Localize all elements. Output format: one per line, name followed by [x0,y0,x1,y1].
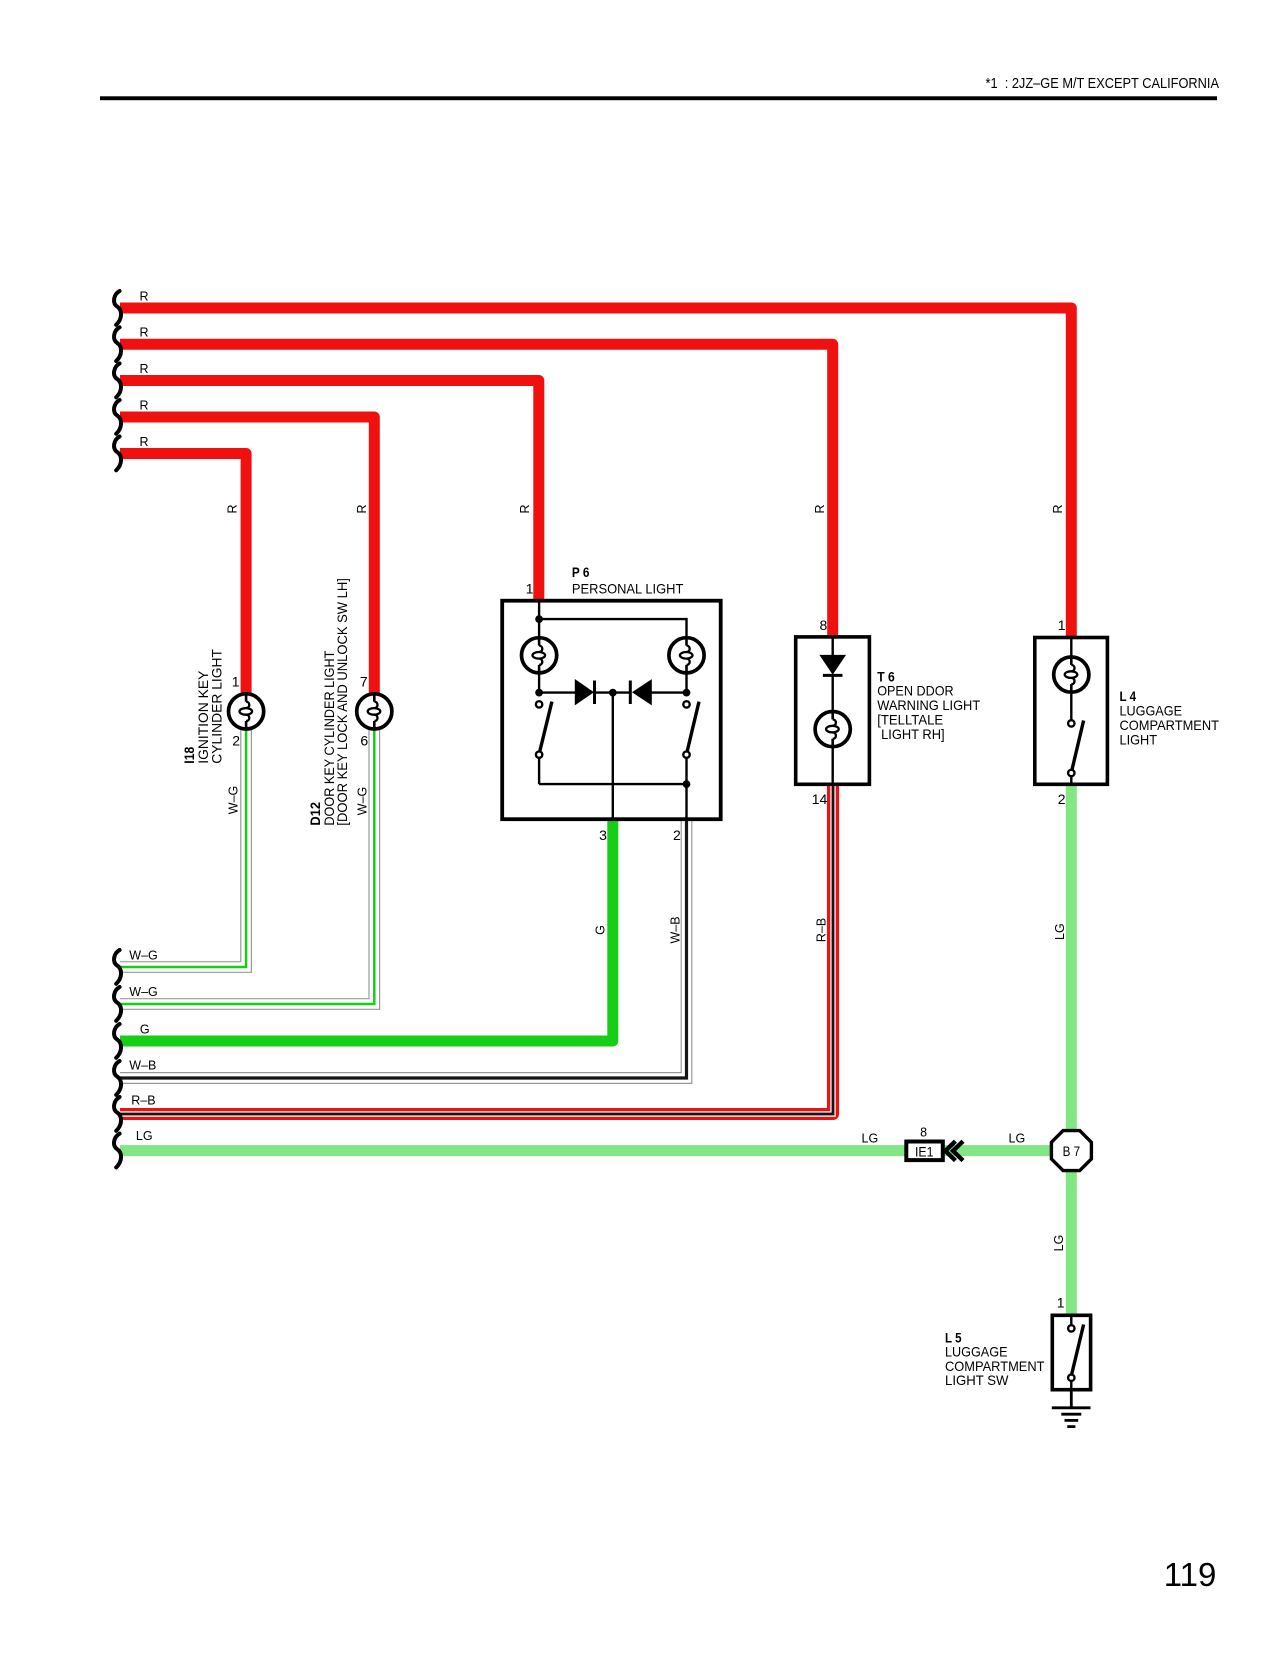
svg-text:[DOOR KEY LOCK AND UNLOCK SW L: [DOOR KEY LOCK AND UNLOCK SW LH] [334,578,350,826]
connector L4 box [1035,638,1108,785]
svg-text:8: 8 [820,617,828,633]
svg-text:R: R [140,435,149,449]
wire LG from B7 down to L5 [1066,1168,1077,1316]
svg-text:W–G: W–G [227,786,241,814]
wire LG horizontal run [120,1145,1071,1156]
lamp L4 [1054,657,1089,692]
svg-text:R–B: R–B [131,1094,155,1108]
svg-text:LIGHT: LIGHT [1120,732,1158,748]
wire W-G from I18 [120,729,251,972]
diode T6 [820,655,845,674]
svg-text:6: 6 [360,733,368,749]
break symbol R-B [114,1097,121,1131]
switch P6 left [536,701,542,707]
svg-text:R: R [140,326,149,340]
ground [1052,1390,1091,1427]
svg-text:R–B: R–B [815,918,829,942]
node P6 center [609,689,617,697]
lamp P6 left [522,638,557,673]
break symbol W-B [114,1061,121,1095]
svg-text:LG: LG [1052,1235,1066,1252]
svg-text:R: R [225,504,239,513]
svg-text:W–B: W–B [668,916,682,943]
wire W-B from P6 pin2 [120,818,692,1083]
break symbol G [114,1024,121,1058]
svg-text:LG: LG [1053,923,1067,940]
wire R bus3 to P6 [120,381,539,602]
break symbol bus2 [114,327,121,361]
lamp D12 [357,694,392,729]
connector IE1 [906,1142,943,1161]
svg-text:8: 8 [920,1126,927,1140]
break symbol bus4 [114,400,121,434]
svg-text:PERSONAL LIGHT: PERSONAL LIGHT [572,580,684,596]
svg-text:2: 2 [673,827,681,843]
break symbol bus5 [114,437,121,471]
lamp I18 [229,694,264,729]
diode D1 in P6 [575,680,593,704]
svg-text:R: R [140,289,149,303]
svg-text:LG: LG [136,1129,153,1143]
svg-text:W–G: W–G [129,985,157,999]
wire R bus1 to L4 [120,308,1071,638]
svg-text:P 6: P 6 [572,564,590,580]
switch L5 [1068,1325,1074,1331]
svg-text:W–B: W–B [129,1059,156,1073]
node P6 right lower [683,780,691,788]
node B7 octagon [1051,1131,1091,1171]
svg-text:119: 119 [1164,1556,1217,1593]
node P6 right below lamp [683,689,691,697]
svg-text:IE1: IE1 [915,1144,934,1159]
svg-text:3: 3 [599,827,607,843]
break symbol LG [114,1134,121,1168]
svg-text:R: R [355,504,369,513]
switch P6 right [683,701,689,707]
wire R bus4 to D12 [120,417,374,694]
svg-text:14: 14 [812,791,828,807]
svg-text:LG: LG [1009,1131,1026,1145]
switch L5 box [1052,1315,1090,1389]
svg-text:2: 2 [1058,791,1066,807]
node P6 top [535,615,543,623]
svg-text:LIGHT RH]: LIGHT RH] [881,726,945,742]
svg-text:R: R [1051,504,1065,513]
svg-text:R: R [140,398,149,412]
diode D2 in P6 [633,680,651,704]
wire R bus5 to I18 [120,454,246,695]
svg-text:1: 1 [232,674,240,690]
switch L4 [1068,720,1074,726]
svg-text:LIGHT SW: LIGHT SW [945,1372,1009,1388]
svg-text:R: R [140,362,149,376]
svg-text:R: R [518,504,532,513]
break symbol W-G1 [114,950,121,984]
node P6 left below lamp [535,689,543,697]
svg-text:W–G: W–G [356,787,370,815]
break symbol W-G2 [114,987,121,1021]
svg-text:1: 1 [526,581,534,597]
break symbol bus1 [114,291,121,325]
svg-text:R: R [813,504,827,513]
svg-text:2: 2 [232,733,240,749]
wire W-G from D12 [120,729,380,1009]
L4 internal wiring [1070,638,1072,785]
header rule [100,96,1217,100]
wire G from P6 pin3 [120,818,613,1041]
lamp T6 [815,712,850,747]
break symbol bus3 [114,364,121,398]
wire R bus2 to T6 [120,344,833,637]
P6 internal wiring [539,601,686,818]
T6 internal wiring [832,637,834,784]
wire R-B from T6 pin14 [120,784,835,1116]
wire LG vertical from L4 pin2 [1066,784,1077,1133]
svg-text:CYLINDER LIGHT: CYLINDER LIGHT [209,649,225,764]
svg-text:7: 7 [360,674,368,690]
connector T6 box [796,637,870,784]
L5 internal wiring [1070,1315,1072,1389]
svg-text:W–G: W–G [129,948,157,962]
connector P6 box [502,601,721,820]
svg-text:1: 1 [1057,1294,1065,1310]
svg-text:G: G [594,925,608,935]
svg-text:B 7: B 7 [1063,1144,1081,1159]
svg-text:LG: LG [862,1131,879,1145]
lamp P6 right [669,638,704,673]
svg-text:*1 : 2JZ–GE M/T EXCEPT CALIFO: *1 : 2JZ–GE M/T EXCEPT CALIFORNIA [986,75,1220,92]
svg-text:1: 1 [1058,617,1066,633]
chevrons at IE1 [945,1141,955,1160]
svg-text:G: G [140,1023,150,1037]
